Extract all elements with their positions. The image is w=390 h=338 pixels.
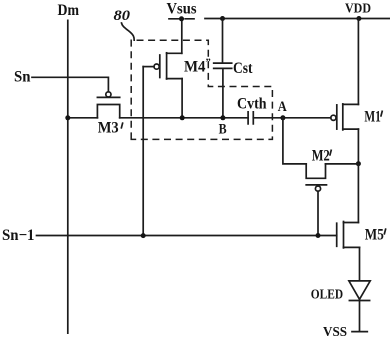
- wire M2 drain to junction: [326, 163, 359, 165]
- capacitor Cst: [214, 19, 232, 118]
- wire Dm data line vertical: [67, 20, 69, 333]
- wire M5 source down to OLED anode: [359, 247, 361, 280]
- junction node A: [280, 115, 285, 120]
- leader line 80: [122, 23, 135, 40]
- svg-text:Sn: Sn: [14, 68, 31, 85]
- junction Vsus: [179, 16, 184, 21]
- wire Cvth to node A to M1 gate: [253, 117, 330, 119]
- wire M2 gate down to Sn-1: [317, 191, 319, 235]
- node VSS terminal tick: [352, 331, 367, 333]
- wire Vsus terminal tick: [169, 18, 194, 20]
- svg-text:M3: M3: [98, 120, 119, 137]
- capacitor Cvth: [248, 112, 253, 124]
- svg-text:VSS: VSS: [323, 325, 347, 338]
- svg-text:M5: M5: [365, 226, 384, 243]
- transistor M5': [337, 222, 360, 248]
- junction M1 drain / M2 / M5: [356, 161, 361, 166]
- svg-text:”: ”: [206, 58, 211, 69]
- wire Sn scan line: [32, 77, 108, 92]
- svg-text:A: A: [278, 99, 287, 115]
- svg-text:B: B: [219, 121, 227, 137]
- transistor M3': [97, 92, 119, 118]
- transistor M4': [143, 53, 182, 79]
- svg-text:M1: M1: [364, 108, 381, 125]
- diode OLED: [349, 281, 370, 301]
- junction Cst bottom / node B: [220, 115, 225, 120]
- svg-text:M4: M4: [184, 59, 206, 76]
- wire VDD vertical to M1 source: [357, 19, 359, 105]
- svg-text:Dm: Dm: [58, 2, 80, 19]
- svg-text:Sn−1: Sn−1: [2, 227, 35, 244]
- wire node A down and to M2 source: [283, 118, 306, 164]
- transistor M1': [331, 104, 359, 130]
- svg-text:VDD: VDD: [345, 1, 371, 16]
- junction Cst top on VDD rail: [220, 16, 225, 21]
- wire M4 gate down to Sn-1: [142, 67, 144, 236]
- wire M1 drain down to junction: [357, 129, 359, 164]
- transistor M2': [306, 164, 326, 191]
- junction M4 gate / Sn-1: [141, 233, 146, 238]
- wire node B horizontal (Dm junction to M3, M3 to Cvth): [68, 117, 248, 119]
- svg-text:80: 80: [114, 8, 131, 24]
- wire junction down to M5 drain: [357, 164, 359, 223]
- wire M4 drain down to node B: [181, 79, 183, 118]
- svg-text:Cst: Cst: [233, 60, 253, 77]
- svg-text:OLED: OLED: [311, 287, 343, 302]
- wire Sn-1 scan line: [37, 235, 337, 237]
- svg-text:Cvth: Cvth: [237, 96, 267, 113]
- wire VDD top rail: [205, 18, 390, 20]
- junction VDD: [356, 16, 361, 21]
- junction M4 drain / node B: [180, 115, 185, 120]
- dashed box 80: [131, 40, 272, 139]
- junction M2 gate / Sn-1: [316, 233, 321, 238]
- svg-text:M2: M2: [312, 147, 330, 164]
- junction Dm / M3 source: [65, 115, 70, 120]
- svg-text:Vsus: Vsus: [167, 1, 197, 18]
- wire OLED cathode to VSS: [359, 301, 361, 332]
- wire Vsus vertical to M4 source: [181, 19, 183, 54]
